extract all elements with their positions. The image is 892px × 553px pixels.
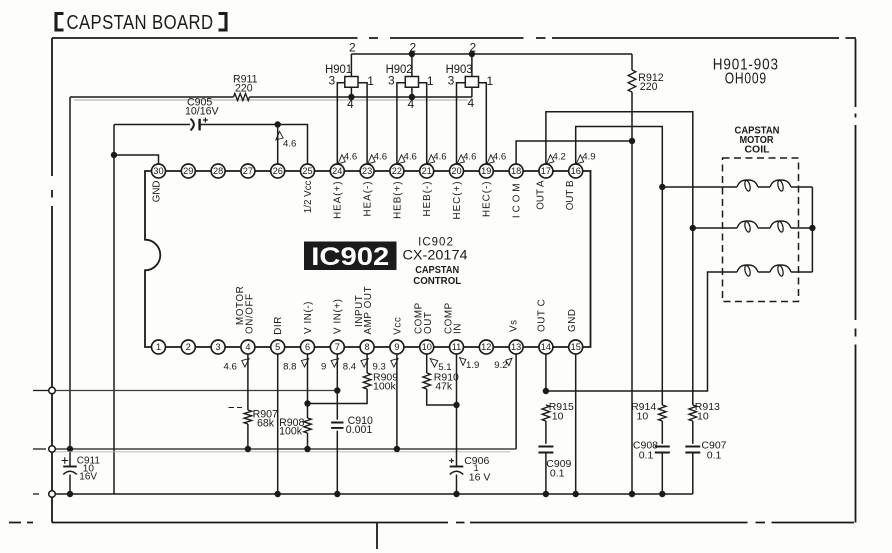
voltage flag pin9	[391, 359, 398, 367]
svg-text:8.4: 8.4	[343, 361, 357, 372]
IC pin 5	[271, 340, 285, 354]
junction pin5 ground	[275, 491, 281, 497]
IC pin 12	[479, 340, 493, 354]
IC pin 15	[569, 340, 583, 354]
IC pin 14	[539, 340, 553, 354]
svg-text:CAPSTAN BOARD: CAPSTAN BOARD	[67, 11, 214, 34]
junction Vcc rail	[67, 446, 73, 452]
IC pin 10	[420, 340, 434, 354]
wire C905 ground side	[114, 124, 190, 126]
wire pin 4 lead	[247, 354, 249, 410]
capacitor C908	[655, 447, 670, 453]
wire H902 pin 3 to IC	[397, 83, 405, 164]
wire coil1 right	[791, 186, 812, 188]
junction OUT B coil1	[659, 184, 665, 190]
svg-text:OUT B: OUT B	[565, 180, 576, 210]
hall sensor H902 body	[405, 77, 418, 88]
hall sensor H903 body	[465, 77, 478, 88]
board outline bottom	[9, 522, 854, 524]
svg-text:10: 10	[697, 411, 709, 423]
IC pin 11	[450, 340, 464, 354]
svg-text:DIR: DIR	[273, 316, 284, 335]
title bracket right	[219, 14, 227, 31]
svg-text:1: 1	[486, 74, 493, 88]
svg-text:HEA(+): HEA(+)	[333, 181, 344, 219]
svg-text:4.9: 4.9	[582, 152, 595, 163]
svg-text:4.6: 4.6	[433, 152, 446, 163]
svg-text:1/2 Vcc: 1/2 Vcc	[303, 180, 314, 213]
inductor coil 2	[737, 221, 791, 228]
IC pin 26	[271, 164, 285, 178]
voltage flag pin11	[460, 358, 466, 366]
svg-text:20: 20	[451, 166, 461, 176]
svg-text:100k: 100k	[373, 381, 397, 393]
IC pin 3	[211, 340, 225, 354]
svg-text:47k: 47k	[435, 381, 453, 393]
capacitor C911 (electrolytic)	[63, 466, 77, 468]
hall sensor H901 body	[345, 77, 358, 88]
junction pin30 branch	[111, 152, 117, 158]
resistor R914	[659, 405, 667, 421]
svg-text:3: 3	[328, 74, 335, 88]
svg-text:1.9: 1.9	[466, 360, 479, 371]
wire rail V IN(+) input	[52, 390, 337, 392]
wire R914 to C908	[661, 421, 663, 444]
svg-text:27: 27	[243, 166, 253, 176]
wire H903 pin 1 to IC	[479, 83, 487, 164]
wire ground drop x114	[113, 125, 115, 495]
svg-text:OUT C: OUT C	[536, 299, 547, 332]
off-board dash ground	[33, 493, 39, 495]
wire H902 pin 2	[411, 54, 413, 77]
wire C911 top lead	[69, 449, 71, 466]
svg-text:7: 7	[335, 342, 340, 352]
svg-text:0.1: 0.1	[639, 450, 654, 462]
wire hall pin2 bus to R912	[351, 53, 632, 55]
svg-text:4.6: 4.6	[374, 152, 387, 163]
svg-text:16V: 16V	[79, 472, 97, 483]
voltage flag pin8	[361, 359, 368, 367]
wire pin 5 DIR to ground	[277, 354, 279, 494]
R907 adjust dash	[229, 407, 243, 409]
svg-text:IN: IN	[453, 323, 464, 334]
IC pin 9	[390, 340, 404, 354]
svg-text:HEA(-): HEA(-)	[363, 181, 374, 217]
svg-text:1: 1	[427, 74, 434, 88]
svg-text:4: 4	[408, 97, 415, 111]
wire pin 18 ICOM	[516, 141, 632, 164]
svg-text:9: 9	[321, 361, 326, 372]
svg-text:1: 1	[367, 74, 374, 88]
wire coil2 left	[693, 227, 737, 229]
wire rail Vcc scan shadow	[55, 451, 510, 453]
junction C908 ground	[659, 491, 665, 497]
capstan motor coil box	[723, 158, 799, 302]
svg-text:HEB(+): HEB(+)	[392, 181, 403, 219]
capacitor C906 (electrolytic)	[450, 466, 464, 468]
svg-text:OH009: OH009	[725, 71, 767, 88]
voltage flag pin17	[547, 155, 554, 164]
wire H901 pin 2	[350, 54, 352, 77]
svg-text:220: 220	[235, 82, 253, 94]
svg-text:16: 16	[571, 166, 581, 176]
svg-text:0.1: 0.1	[707, 450, 722, 462]
wire R912 bottom to ground rail	[631, 92, 633, 494]
svg-text:IC902: IC902	[418, 236, 454, 248]
svg-text:8: 8	[365, 342, 370, 352]
wire C908 to ground rail	[661, 453, 663, 495]
svg-text:4.6: 4.6	[224, 361, 237, 372]
svg-text:5.1: 5.1	[438, 362, 451, 373]
svg-text:HEB(-): HEB(-)	[422, 181, 433, 217]
svg-text:23: 23	[362, 166, 372, 176]
svg-text:19: 19	[481, 166, 491, 176]
IC pin 2	[181, 340, 195, 354]
svg-text:4: 4	[468, 96, 475, 110]
svg-text:22: 22	[392, 166, 402, 176]
svg-text:25: 25	[302, 166, 312, 176]
wire pin13 Vs to Vcc rail	[515, 354, 517, 449]
resistor R907	[244, 410, 252, 424]
wire R908 bottom	[307, 433, 309, 449]
junction hall2 H903	[469, 51, 475, 57]
svg-text:14: 14	[541, 342, 551, 352]
wire pin 30 GND	[114, 155, 159, 164]
voltage flag pin13	[506, 358, 512, 366]
svg-text:GND: GND	[152, 181, 163, 203]
inductor coil 3	[737, 265, 791, 272]
svg-text:GND: GND	[567, 308, 578, 332]
resistor R909	[363, 373, 371, 389]
svg-text:9.2: 9.2	[494, 360, 507, 371]
C906 plus sign	[449, 458, 454, 463]
wire C906 bottom	[456, 475, 458, 495]
wire pin 6 lead	[307, 354, 309, 418]
C911 plus sign	[62, 457, 69, 464]
voltage flag pin21	[427, 155, 434, 164]
svg-text:3: 3	[388, 74, 395, 88]
wire pin 11 lead	[456, 354, 458, 466]
IC pin 24	[330, 164, 344, 178]
svg-text:10/16V: 10/16V	[185, 105, 220, 117]
wire pin 26 stub	[277, 125, 279, 165]
svg-text:0.001: 0.001	[346, 424, 373, 436]
wire R912 top lead	[631, 54, 633, 70]
resistor R913	[689, 405, 697, 421]
svg-text:V IN(+): V IN(+)	[333, 299, 344, 335]
wire H901 pin 1 to IC	[358, 83, 367, 164]
svg-text:1: 1	[156, 342, 161, 352]
voltage flag pin16	[576, 155, 583, 164]
svg-text:24: 24	[332, 166, 342, 176]
junction hall4 H902	[409, 94, 415, 100]
IC pin 16	[569, 164, 583, 178]
svg-text:4.6: 4.6	[283, 138, 296, 149]
resistor R908	[304, 418, 312, 433]
wire coil1 left	[662, 186, 737, 188]
wire OUT C to coil3	[546, 272, 737, 391]
svg-text:IC902: IC902	[311, 243, 389, 271]
svg-text:2: 2	[410, 41, 417, 55]
wire C907 to ground rail	[692, 453, 694, 495]
wire C909 to ground rail	[545, 453, 547, 495]
IC pin 8	[360, 340, 374, 354]
svg-text:4.6: 4.6	[404, 152, 417, 163]
wire Vcc vertical	[69, 97, 71, 449]
voltage flag pin19	[487, 155, 494, 164]
svg-text:10: 10	[422, 342, 432, 352]
wire R907 bottom	[247, 424, 249, 449]
resistor R911	[234, 94, 250, 101]
junction C906 ground	[453, 491, 459, 497]
wire pin 16 OUT B	[576, 127, 663, 406]
svg-text:68k: 68k	[257, 417, 275, 429]
svg-text:ICOM: ICOM	[512, 181, 523, 219]
wire pin 7 lead	[336, 354, 338, 420]
svg-text:HEC(-): HEC(-)	[482, 181, 493, 217]
svg-text:Vcc: Vcc	[392, 317, 403, 335]
svg-text:100k: 100k	[279, 425, 303, 437]
board outline top	[52, 37, 856, 39]
svg-text:CONTROL: CONTROL	[413, 276, 461, 287]
svg-text:29: 29	[183, 166, 193, 176]
svg-text:26: 26	[273, 166, 283, 176]
svg-text:13: 13	[511, 342, 521, 352]
svg-text:Vs: Vs	[509, 319, 520, 332]
resistor R910	[423, 373, 431, 389]
wire coil2 right	[791, 227, 812, 229]
wire pin 15 GND to rail	[575, 354, 577, 494]
junction C909 ground	[543, 491, 549, 497]
svg-text:CAPSTAN: CAPSTAN	[415, 265, 459, 276]
wire R913 to C907	[692, 421, 694, 444]
svg-text:220: 220	[640, 81, 658, 93]
voltage flag pin26	[276, 131, 283, 140]
voltage flag pin22	[398, 155, 405, 164]
terminal Vcc	[49, 446, 56, 453]
junction R912 ground	[629, 491, 635, 497]
IC pin 28	[211, 164, 225, 178]
svg-text:2: 2	[186, 342, 191, 352]
junction pin15 ground	[573, 491, 579, 497]
svg-text:2: 2	[349, 41, 356, 55]
junction hall2 H902	[409, 51, 415, 57]
wire pin 14 OUT C	[545, 354, 547, 391]
junction R908 Vcc rail	[304, 446, 310, 452]
svg-text:V IN(-): V IN(-)	[303, 301, 314, 334]
svg-text:COIL: COIL	[745, 145, 770, 156]
svg-text:15: 15	[571, 342, 581, 352]
wire R915 to C909	[545, 421, 547, 444]
svg-text:OUT A: OUT A	[535, 180, 546, 210]
junction R907 Vcc rail	[245, 446, 251, 452]
svg-text:3: 3	[216, 342, 221, 352]
junction rail1 pin7	[334, 387, 340, 393]
IC pin 27	[241, 164, 255, 178]
voltage flag pin10	[430, 359, 438, 367]
off-board dash V IN(+)	[33, 390, 48, 392]
board outline bottom tick	[376, 523, 378, 550]
svg-text:28: 28	[213, 166, 223, 176]
resistor R915	[542, 405, 550, 421]
wire Vcc to R911	[70, 96, 234, 98]
wire H903 pin 4	[471, 87, 473, 97]
svg-text:9.3: 9.3	[373, 361, 386, 372]
svg-text:CX-20174: CX-20174	[403, 248, 469, 263]
IC902 designator box	[304, 242, 397, 271]
voltage flag pin7	[331, 359, 338, 367]
junction OUT A coil2	[690, 225, 696, 231]
junction ICOM node	[629, 138, 635, 144]
capacitor C907	[685, 447, 700, 453]
wire pin 17 OUT A	[546, 112, 693, 405]
IC pin 20	[450, 164, 464, 178]
svg-text:4: 4	[347, 97, 354, 111]
wire coil common	[811, 187, 813, 272]
IC pin 21	[420, 164, 434, 178]
wire C910 bottom to ground	[336, 431, 338, 494]
svg-text:4: 4	[245, 342, 250, 352]
IC pin 22	[390, 164, 404, 178]
svg-text:4.6: 4.6	[493, 152, 506, 163]
IC pin 13	[509, 340, 523, 354]
IC pin 30	[152, 164, 166, 178]
junction pin9 Vcc rail	[394, 446, 400, 452]
voltage flag pin6	[301, 359, 308, 367]
svg-text:8.8: 8.8	[283, 361, 296, 372]
op-amp IC902 body outline	[145, 171, 591, 347]
capacitor C910	[331, 423, 343, 428]
junction C911 ground	[67, 491, 73, 497]
svg-text:6: 6	[305, 342, 310, 352]
IC pin 23	[360, 164, 374, 178]
svg-text:0.1: 0.1	[550, 468, 565, 480]
wire C905 to 1/2 Vcc pins	[200, 125, 308, 165]
IC pin 7	[330, 340, 344, 354]
voltage flag pin23	[368, 155, 375, 164]
junction hall4 H901	[348, 94, 354, 100]
off-board dash Vcc	[33, 448, 46, 450]
junction R910 node	[453, 402, 459, 408]
svg-text:10: 10	[552, 411, 564, 423]
wire R909 link pin8 to pin6	[308, 354, 368, 404]
svg-text:11: 11	[452, 342, 462, 352]
wire H903 pin 2	[471, 54, 473, 77]
svg-text:4.6: 4.6	[463, 152, 476, 163]
wire H901 pin 3 to IC	[337, 83, 345, 164]
inductor coil 1	[737, 180, 791, 187]
wire R911 to hall pin4s	[250, 96, 472, 98]
resistor R912	[628, 70, 636, 92]
IC pin 6	[301, 340, 315, 354]
junction coil common	[809, 225, 815, 231]
wire H903 pin 3 to IC	[457, 83, 466, 164]
svg-text:16 V: 16 V	[469, 472, 491, 484]
svg-text:4.6: 4.6	[344, 152, 357, 163]
svg-text:21: 21	[422, 166, 432, 176]
svg-text:ON/OFF: ON/OFF	[245, 293, 256, 334]
wire C911 bottom lead	[69, 475, 71, 495]
IC pin 25	[301, 164, 315, 178]
junction OUT C node	[543, 388, 549, 394]
svg-text:HEC(+): HEC(+)	[452, 181, 463, 220]
svg-text:12: 12	[481, 342, 491, 352]
wire H902 pin 4	[411, 87, 413, 97]
junction R909 feedback node	[304, 400, 310, 406]
title CAPSTAN BOARD bracket left	[56, 14, 64, 31]
wire rail ground	[52, 493, 693, 495]
voltage flag pin20	[457, 155, 464, 164]
svg-text:2: 2	[470, 41, 477, 55]
capacitor C905	[191, 119, 194, 131]
IC pin 4	[241, 340, 255, 354]
IC pin 19	[479, 164, 493, 178]
voltage flag pin4	[242, 359, 249, 367]
svg-text:4.2: 4.2	[553, 152, 566, 163]
junction pin 26 node	[275, 121, 281, 127]
wire pin 9 Vcc lead	[396, 354, 398, 449]
voltage flag pin24	[338, 155, 345, 164]
junction C910 ground	[334, 491, 340, 497]
svg-text:30: 30	[153, 166, 163, 176]
wire W1 scan shadow	[74, 99, 468, 101]
svg-text:3: 3	[448, 74, 455, 88]
wire coil3 right	[791, 271, 812, 273]
svg-text:AMP OUT: AMP OUT	[363, 286, 374, 335]
IC pin 1	[152, 340, 166, 354]
terminal V IN(+)	[49, 387, 56, 394]
wire H902 pin 1 to IC	[419, 83, 427, 164]
board outline left	[51, 38, 53, 523]
C905 plus sign	[203, 118, 208, 123]
svg-text:OUT: OUT	[423, 312, 434, 334]
wire R910 link pin10 to pin11	[427, 354, 457, 405]
capacitor C909	[538, 447, 553, 453]
IC pin 29	[181, 164, 195, 178]
svg-text:9: 9	[394, 342, 399, 352]
wire rail Vcc	[52, 448, 516, 450]
svg-text:10: 10	[637, 411, 649, 423]
wire H901 pin 4	[350, 87, 352, 97]
terminal ground	[49, 491, 56, 498]
IC pin 18	[509, 164, 523, 178]
svg-text:18: 18	[511, 166, 521, 176]
board outline right	[855, 39, 857, 523]
svg-text:17: 17	[541, 166, 551, 176]
IC pin 17	[539, 164, 553, 178]
svg-text:5: 5	[275, 342, 280, 352]
